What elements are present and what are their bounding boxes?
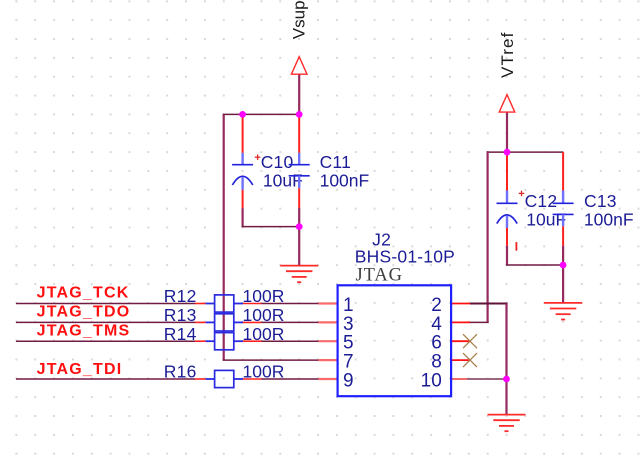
- svg-text:5: 5: [343, 333, 354, 354]
- svg-text:VTref: VTref: [498, 32, 517, 78]
- capacitor C13 top pin: [562, 152, 564, 190]
- wire C13 bottom stub to rail: [562, 246, 564, 265]
- wire VTref triangle stem: [506, 112, 508, 152]
- wire VTref bottom rail: [506, 264, 563, 266]
- capacitor C11 bottom lead: [298, 176, 300, 189]
- capacitor C12 bottom lead: [506, 216, 508, 228]
- wire pin 2 horizontal: [470, 303, 508, 305]
- svg-text:100R: 100R: [243, 324, 285, 344]
- svg-text:8: 8: [431, 352, 442, 373]
- resistor lead blue R14 left: [206, 340, 215, 342]
- pin stub R16 right: [243, 378, 262, 380]
- junction node Vsup bottom rail: [296, 223, 303, 230]
- resistor R16: [215, 370, 234, 387]
- power symbol Vsup triangle: [291, 57, 307, 74]
- capacitor C10 curved plate: [232, 176, 252, 185]
- svg-text:9: 9: [343, 370, 354, 391]
- capacitor C11 top lead: [298, 153, 300, 164]
- capacitor C10 plus sign: [255, 154, 261, 160]
- capacitor C13 bottom lead: [562, 214, 564, 226]
- svg-text:BHS-01-10P: BHS-01-10P: [355, 246, 455, 266]
- wire pin 2 vertical drop: [505, 304, 507, 380]
- wire net JTAG_TDI row: [16, 378, 319, 380]
- wire net JTAG_TCK row: [16, 303, 319, 305]
- ground symbol VTref branch: [544, 303, 582, 320]
- capacitor C10 top plate: [232, 164, 253, 166]
- wire C11 bottom stub to rail: [298, 208, 300, 227]
- svg-text:100R: 100R: [243, 286, 285, 306]
- svg-text:JTAG_TMS: JTAG_TMS: [37, 322, 131, 339]
- pin stub R13 right: [243, 321, 262, 323]
- svg-text:10uF: 10uF: [263, 170, 303, 190]
- junction node VTref C12 tap: [504, 149, 511, 156]
- capacitor C13 plates: [553, 203, 574, 214]
- capacitor C12 curved plate: [497, 215, 517, 224]
- resistor lead blue R12 right: [234, 303, 243, 305]
- capacitor C10 top pin: [242, 114, 244, 152]
- svg-text:JTAG: JTAG: [356, 266, 403, 286]
- capacitor C12 bottom pin: [506, 228, 508, 246]
- svg-text:2: 2: [431, 295, 442, 316]
- junction node VTref bottom rail: [560, 262, 567, 269]
- wire VTref drop to pin 4: [470, 321, 489, 323]
- wire ground drop Vsup: [298, 227, 300, 266]
- pin stub R14 right: [243, 340, 262, 342]
- no-connect X pin 6: [463, 334, 477, 348]
- capacitor C12 top lead: [506, 191, 508, 203]
- ground symbol pin 10: [488, 415, 526, 432]
- capacitor C11 bottom pin: [298, 188, 300, 208]
- svg-text:R14: R14: [164, 324, 197, 344]
- svg-text:C10: C10: [261, 152, 294, 172]
- wire Vsup triangle stem: [298, 74, 300, 114]
- capacitor C10 bottom pin: [242, 190, 244, 208]
- svg-text:1: 1: [343, 295, 354, 316]
- connector J2 body: [338, 285, 452, 396]
- capacitor C12 top pin: [506, 152, 508, 190]
- junction node Vsup C11 tap: [296, 111, 303, 118]
- connector J2 pin 10 stub salmon: [451, 378, 467, 380]
- resistor R13: [215, 314, 234, 331]
- svg-text:C11: C11: [320, 152, 351, 172]
- ground symbol Vsup branch: [280, 266, 318, 283]
- svg-text:C13: C13: [584, 191, 617, 211]
- svg-text:10uF: 10uF: [526, 209, 566, 229]
- wire Vsup to pin 7: [223, 359, 319, 361]
- svg-text:JTAG_TCK: JTAG_TCK: [37, 285, 130, 302]
- capacitor C12 plus sign: [519, 191, 525, 197]
- wire VTref left drop: [487, 151, 489, 322]
- svg-text:100nF: 100nF: [584, 209, 634, 229]
- svg-text:JTAG_TDI: JTAG_TDI: [37, 361, 123, 378]
- capacitor C11 top pin: [298, 114, 300, 152]
- pin stub R16 left: [195, 378, 206, 380]
- wire pin 10 junction to ground: [505, 379, 507, 414]
- wire ground drop VTref: [562, 265, 564, 303]
- junction node pin 10 ground: [503, 376, 510, 383]
- wire net JTAG_TDO row: [16, 321, 319, 323]
- svg-text:6: 6: [431, 333, 442, 354]
- pin stub R12 right: [243, 303, 262, 305]
- wire pin 10 to junction: [467, 378, 507, 380]
- capacitor C12 minus tick: [515, 242, 517, 251]
- connector J2 pin stubs right pins 2 4 6 8: [451, 304, 470, 361]
- capacitor C13 bottom pin: [562, 226, 564, 245]
- capacitor C10 top lead: [241, 153, 243, 164]
- resistor lead blue R14 right: [234, 340, 243, 342]
- resistor lead blue R13 left: [206, 321, 215, 323]
- capacitor C10 bottom lead: [241, 177, 243, 190]
- resistor R12: [215, 295, 234, 312]
- svg-text:Vsup: Vsup: [290, 0, 309, 39]
- wire C10 bottom drop: [242, 208, 244, 227]
- wire Vsup top rail: [223, 113, 300, 115]
- capacitor C11 plates: [289, 165, 310, 176]
- wire Vsup vertical drop: [223, 114, 225, 360]
- resistor R14: [215, 333, 234, 350]
- wire C12 bottom drop: [506, 246, 508, 265]
- svg-text:100R: 100R: [243, 362, 285, 382]
- wire Vsup bottom rail: [242, 226, 300, 228]
- resistor lead blue R16 left: [206, 378, 215, 380]
- resistor lead blue R12 left: [206, 303, 215, 305]
- resistor lead blue R16 right: [234, 378, 243, 380]
- pin stub R12 left: [195, 303, 206, 305]
- resistor lead blue R13 right: [234, 321, 243, 323]
- svg-text:R12: R12: [164, 286, 197, 306]
- wire VTref top rail: [488, 151, 563, 153]
- no-connect X pin 8: [463, 353, 477, 367]
- svg-text:100nF: 100nF: [320, 170, 370, 190]
- pin stub R14 left: [195, 340, 206, 342]
- svg-text:R16: R16: [164, 362, 197, 382]
- capacitor C13 top lead: [562, 191, 564, 203]
- wire net JTAG_TMS row: [16, 340, 319, 342]
- svg-text:7: 7: [343, 352, 354, 373]
- power symbol VTref triangle: [499, 95, 515, 113]
- capacitor C12 top plate: [497, 202, 518, 204]
- svg-text:R13: R13: [164, 305, 197, 325]
- pin stub R13 left: [195, 321, 206, 323]
- svg-text:10: 10: [421, 370, 442, 391]
- svg-text:C12: C12: [525, 191, 558, 211]
- connector J2 pin stubs left pins 1 3 5 7 9: [319, 304, 338, 380]
- junction node Vsup C10 tap: [239, 111, 246, 118]
- svg-text:100R: 100R: [243, 305, 285, 325]
- svg-text:JTAG_TDO: JTAG_TDO: [37, 304, 131, 321]
